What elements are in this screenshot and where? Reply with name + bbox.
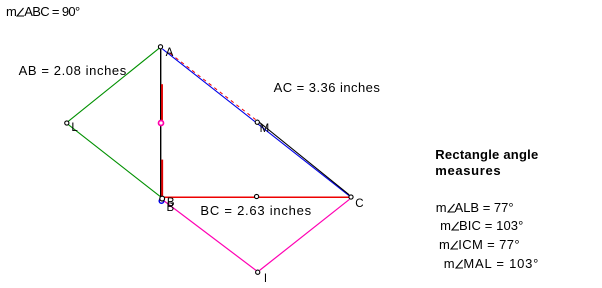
label: AC = 3.36 inches [274,80,381,95]
label: AB = 2.08 inches [19,63,127,78]
label: m&angle;ALB = 77&deg; [436,200,514,215]
node I [256,270,260,274]
label: point I [264,273,267,285]
wire: blue segment A-C [162,49,349,196]
label: point A [166,47,174,59]
node L [65,121,69,125]
node: blue point under B [159,199,164,204]
label: m&angle;BIC = 103&deg; [440,218,523,233]
node B [160,196,165,201]
label: BC = 2.63 inches [200,203,312,218]
wire: red segment A-M (overlaps AC) [170,53,256,119]
wire: black vertical segment A-B [160,49,162,198]
wire: green segment A-L [68,48,159,121]
label: point C [355,198,363,210]
node A [158,45,162,49]
wire: magenta segment B-I [164,201,256,271]
wire: thick red sub-segment on AB (lower) [161,160,163,197]
node: midpoint of BC [255,194,259,198]
label: m&angle;MAL = 103&deg; [444,256,539,271]
node: magenta midpoint of AB [159,121,164,126]
label: m&angle;ICM = 77&deg; [439,237,520,252]
wire: thick red sub-segment on AB (upper) [161,84,163,120]
label: heading Rectangle angle measures [435,147,538,162]
label: point B (upper) [167,197,175,209]
wire: magenta segment I-C [260,199,350,270]
label: point M [260,123,270,135]
wire: green segment L-B [68,125,160,197]
node M [255,120,259,124]
node C [349,195,353,199]
label: point L [71,122,77,134]
label: m&angle;ABC = 90&deg; [6,4,80,19]
wire: red segment B-C [164,196,349,198]
label: point B (lower, overlapping) [167,202,175,214]
wire: black segment M-C (overlaps AC) [259,122,349,195]
